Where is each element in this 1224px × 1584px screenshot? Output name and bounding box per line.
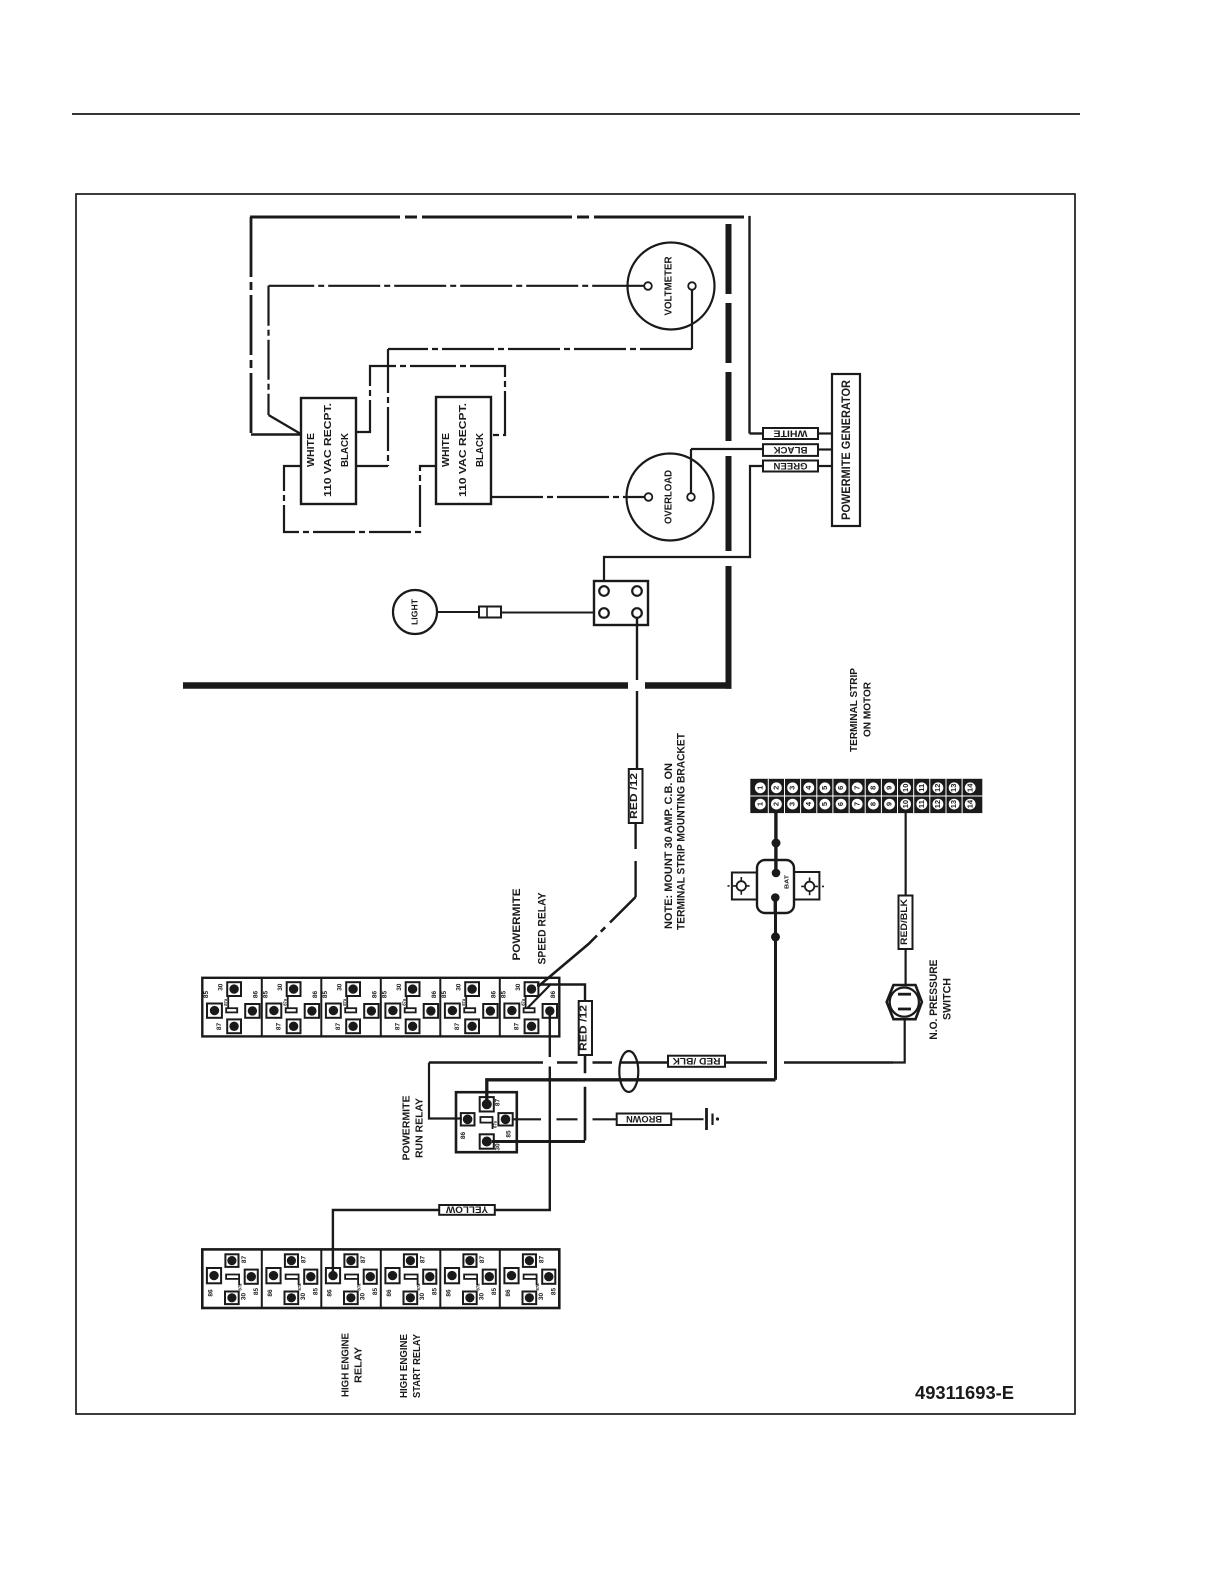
svg-text:87: 87 [360,1256,367,1264]
speed relay socket cell 4 pins 30 85 86 87 [406,982,420,996]
wire black run to label [691,448,763,450]
engine relay socket cell 3 pins 87 86 85 30 [344,1254,357,1267]
svg-text:1: 1 [755,786,764,790]
svg-text:86: 86 [460,1132,467,1140]
wire overload right terminal riser [690,449,692,493]
svg-text:RELAY: RELAY [354,1347,365,1383]
svg-text:85: 85 [491,1288,498,1296]
wire red/blk dashed run right [784,1061,893,1063]
svg-text:VOLTMETER: VOLTMETER [663,256,675,315]
svg-text:6: 6 [836,802,845,806]
svg-text:86: 86 [505,1289,512,1297]
svg-text:SWITCH: SWITCH [942,978,954,1020]
svg-text:RUN RELAY: RUN RELAY [415,1098,426,1158]
wire connector down feed [636,618,638,769]
svg-text:13: 13 [949,800,958,808]
speed relay socket cell 3 pins 30 85 86 87 [346,982,360,996]
svg-text:5: 5 [820,786,829,790]
overload terminal left [645,493,653,501]
svg-text:87: 87 [454,1023,461,1031]
svg-text:87a: 87a [535,1283,540,1291]
svg-text:87: 87 [301,1256,308,1264]
svg-text:87a: 87a [401,998,406,1006]
junction dot b [771,932,780,941]
svg-text:86: 86 [267,1289,274,1297]
svg-text:WHITE: WHITE [774,428,808,438]
svg-text:87a: 87a [416,1283,421,1291]
svg-text:86: 86 [326,1289,333,1297]
svg-text:30: 30 [277,983,284,991]
svg-text:9: 9 [885,786,894,790]
svg-text:30: 30 [538,1293,545,1301]
pressure switch contact top [898,993,911,996]
svg-text:87: 87 [216,1023,223,1031]
svg-text:14: 14 [965,783,974,792]
engine relay socket cell 2 pins 87 86 85 30 [285,1254,298,1267]
wire speed relay 86 drop [549,1016,551,1141]
svg-text:87: 87 [335,1023,342,1031]
wire pressure switch down [893,1019,905,1062]
connector block CB1 [594,581,648,625]
wire to pressure switch [904,949,906,992]
svg-text:85: 85 [262,991,269,999]
overload meter body [627,454,714,541]
svg-text:85: 85 [500,991,507,999]
wire neutral loop right side down to white [748,216,750,434]
wire into recpt1 right lower stub [356,465,388,467]
wire red12 riser lower [584,1055,587,1141]
connector terminal 3 [599,608,609,618]
svg-text:85: 85 [381,991,388,999]
wire label YELLOW [439,1205,495,1215]
wire voltmeter right terminal drop [691,290,693,349]
svg-text:86: 86 [550,991,557,999]
svg-text:87: 87 [479,1256,486,1264]
svg-text:86: 86 [207,1289,214,1297]
wire recpt1-recpt2 upper loop [356,366,505,435]
svg-text:NOTE: MOUNT 30 AMP. C.B. ON: NOTE: MOUNT 30 AMP. C.B. ON [663,763,675,929]
svg-text:87: 87 [275,1023,282,1031]
wire run relay 30 node [492,1140,585,1143]
svg-text:14: 14 [965,799,974,808]
svg-text:30: 30 [337,983,344,991]
wire voltmeter to recpt1 black upper run [388,348,692,350]
svg-text:HIGH ENGINE: HIGH ENGINE [341,1333,352,1397]
svg-text:110 VAC RECPT.: 110 VAC RECPT. [323,403,334,497]
wire label WHITE [763,428,818,439]
svg-text:30: 30 [218,983,225,991]
breaker contact dot bottom [771,893,780,902]
svg-text:3: 3 [788,802,797,806]
svg-text:85: 85 [322,991,329,999]
wire green label to generator [818,465,832,467]
svg-text:GREEN: GREEN [774,461,808,471]
speed relay socket cell 1 pins 30 85 86 87 [227,982,241,996]
wire label RED /BLK [668,1056,725,1067]
svg-text:BLACK: BLACK [475,432,486,467]
svg-text:7: 7 [852,786,861,790]
svg-text:87a: 87a [475,1283,480,1291]
mount hole left [737,881,746,890]
voltmeter terminal right [688,282,696,290]
svg-text:10: 10 [901,800,910,808]
svg-text:RED /12: RED /12 [579,1004,590,1051]
speed relay socket cell 2 pins 30 85 86 87 [287,982,301,996]
svg-text:86: 86 [252,991,259,999]
wire label GREEN [763,461,818,472]
svg-text:87: 87 [394,1023,401,1031]
connector terminal 1 [599,586,609,596]
breaker wire stub top [774,860,777,873]
svg-text:87a: 87a [282,998,287,1006]
svg-text:3: 3 [788,786,797,790]
svg-text:10: 10 [901,784,910,792]
svg-text:7: 7 [852,802,861,806]
svg-text:8: 8 [868,802,877,806]
speed relay contact arm [528,984,552,1008]
svg-text:86: 86 [386,1289,393,1297]
svg-text:POWERMITE GENERATOR: POWERMITE GENERATOR [839,380,853,520]
svg-text:87a: 87a [493,1120,498,1128]
breaker wire stub bottom [774,898,777,914]
wire left bus drop [267,286,269,415]
svg-text:BLACK: BLACK [773,445,808,455]
svg-text:87a: 87a [461,998,466,1006]
svg-text:86: 86 [445,1289,452,1297]
diagram border frame [76,194,1075,1414]
svg-text:POWERMITE: POWERMITE [402,1095,413,1160]
svg-text:SPEED RELAY: SPEED RELAY [537,892,549,965]
svg-text:30: 30 [515,983,522,991]
svg-text:YELLOW: YELLOW [445,1205,488,1215]
pressure switch face [890,988,919,1017]
wire label RED/BLK vertical [899,896,913,950]
svg-text:110 VAC RECPT.: 110 VAC RECPT. [458,403,469,497]
light L1 body [393,590,437,634]
fuse F1 [479,607,501,618]
svg-text:TERMINAL STRIP: TERMINAL STRIP [848,668,860,752]
wire label RED /12 upper [629,769,643,823]
svg-text:1: 1 [755,802,764,806]
wire diagonal joint into recpt1 [269,415,301,434]
svg-text:POWERMITE: POWERMITE [511,889,523,961]
wire yellow from node [495,1141,550,1211]
connector terminal 2 [632,586,642,596]
svg-text:OVERLOAD: OVERLOAD [663,470,675,524]
mount hole right [805,882,814,891]
svg-text:30: 30 [300,1293,307,1301]
voltmeter terminal left [644,282,652,290]
svg-text:85: 85 [313,1288,320,1296]
svg-text:TERMINAL STRIP MOUNTING BRACKE: TERMINAL STRIP MOUNTING BRACKET [676,733,688,930]
svg-text:87a: 87a [520,998,525,1006]
svg-text:85: 85 [203,991,210,999]
svg-text:85: 85 [253,1288,260,1296]
engine relay socket cell 6 pins 87 86 85 30 [523,1254,536,1267]
heavy panel bar horizontal [183,682,732,689]
svg-text:85: 85 [506,1130,513,1138]
wire label BROWN [617,1114,672,1126]
svg-text:BROWN: BROWN [626,1114,662,1124]
svg-text:12: 12 [933,800,942,808]
svg-text:87: 87 [420,1256,427,1264]
svg-text:N.O. PRESSURE: N.O. PRESSURE [928,960,940,1040]
run relay K1 box [456,1092,517,1152]
svg-text:87: 87 [513,1023,520,1031]
ground symbol [705,1108,708,1130]
svg-text:BLACK: BLACK [340,432,351,467]
svg-text:2: 2 [772,802,781,806]
svg-text:RED/BLK: RED/BLK [899,899,910,945]
svg-text:87a: 87a [223,998,228,1006]
wire drop at x388 [387,349,389,466]
wire recpt2 to overload left terminal [491,496,645,498]
speed relay socket cell 6 pins 30 85 86 87 [525,982,539,996]
svg-text:86: 86 [371,991,378,999]
wire light to fuse [437,611,479,613]
svg-text:WHITE: WHITE [306,433,317,467]
receptacle J1 box [301,398,356,504]
powermite generator box [832,374,860,526]
svg-text:87a: 87a [297,1283,302,1291]
svg-text:30: 30 [360,1293,367,1301]
wire recpt1-recpt2 lower loop [284,466,436,532]
wire neutral loop left side [250,217,253,433]
wire recpt1 left feed [251,433,302,436]
engine relay socket strip [202,1249,559,1308]
svg-text:87a: 87a [237,1283,242,1291]
svg-text:8: 8 [868,786,877,790]
heavy panel bar vertical [726,224,732,689]
speed relay socket strip [202,978,559,1037]
receptacle J2 box [436,397,491,504]
svg-text:87: 87 [241,1256,248,1264]
svg-text:5: 5 [820,802,829,806]
pressure switch hex body [887,985,922,1019]
circuit breaker body [757,860,794,913]
terminal strip on motor [750,779,982,813]
svg-text:BAT: BAT [785,874,791,889]
overload terminal right [687,493,695,501]
svg-text:11: 11 [917,800,926,808]
svg-text:30: 30 [396,983,403,991]
svg-text:87: 87 [495,1099,502,1107]
svg-text:85: 85 [372,1288,379,1296]
svg-text:30: 30 [241,1293,248,1301]
wire label BLACK [763,444,818,456]
circuit breaker mount tab left [732,873,757,900]
svg-text:RED /BLK: RED /BLK [672,1056,721,1066]
wire neutral loop top side [250,216,750,219]
harness ellipse [619,1051,638,1092]
svg-text:START RELAY: START RELAY [412,1334,423,1398]
svg-text:49311693-E: 49311693-E [915,1383,1014,1403]
svg-text:87: 87 [539,1256,546,1264]
engine relay socket cell 4 pins 87 86 85 30 [404,1254,417,1267]
wire run relay 86 branch [429,1063,462,1119]
junction dot a [772,839,781,848]
run relay pins 87 86 85 30 [480,1097,494,1111]
wire white stub into label [750,432,764,434]
wire red12 diagonal to speed relay [538,897,636,987]
breaker contact dot top [772,869,781,878]
engine relay socket cell 1 pins 87 86 85 30 [225,1254,238,1267]
wire green run [604,466,763,586]
svg-text:30: 30 [419,1293,426,1301]
wire red12 below label [634,823,636,897]
wire breaker down to run relay [774,913,777,1080]
wire brown to ground [671,1118,703,1120]
svg-text:30: 30 [495,1143,502,1151]
wire terminal 2 to breaker [774,813,777,874]
wire black label to generator [818,448,832,450]
svg-text:LIGHT: LIGHT [411,599,420,625]
engine relay socket cell 5 pins 87 86 85 30 [463,1254,476,1267]
wire terminal 10 down [905,813,907,896]
svg-text:9: 9 [885,802,894,806]
svg-text:WHITE: WHITE [441,433,452,467]
svg-text:87a: 87a [342,998,347,1006]
svg-text:HIGH ENGINE: HIGH ENGINE [399,1334,410,1398]
circuit breaker mount tab right [794,872,820,900]
page top rule [72,113,1080,115]
wire voltmeter left terminal to left bus [269,285,645,287]
svg-text:12: 12 [933,784,942,792]
svg-text:86: 86 [431,991,438,999]
svg-text:6: 6 [836,786,845,790]
svg-text:30: 30 [456,983,463,991]
wire label RED /12 speed [579,1001,592,1055]
wire red/blk dashed run [429,1061,668,1063]
connector terminal 4 [632,608,642,618]
svg-text:ON MOTOR: ON MOTOR [862,682,874,737]
svg-text:85: 85 [441,991,448,999]
wire white label to generator [818,432,832,434]
svg-text:11: 11 [917,784,926,792]
wire yellow to start relay [333,1210,439,1276]
svg-text:86: 86 [312,991,319,999]
svg-text:85: 85 [551,1288,558,1296]
svg-text:RED /12: RED /12 [629,772,640,819]
svg-text:87a: 87a [356,1283,361,1291]
voltmeter V1 body [628,243,715,330]
pressure switch contact bottom [898,1008,911,1011]
wire run relay 85 dashed [513,1118,617,1120]
wire fuse to connector [501,612,599,614]
svg-text:85: 85 [432,1288,439,1296]
wire breaker to run relay 87 [487,1080,776,1108]
speed relay socket cell 5 pins 30 85 86 87 [465,982,479,996]
wire speed relay 30 to red12 riser [537,985,585,1002]
svg-text:86: 86 [490,991,497,999]
svg-text:13: 13 [949,784,958,792]
svg-text:30: 30 [479,1293,486,1301]
svg-text:2: 2 [772,786,781,790]
